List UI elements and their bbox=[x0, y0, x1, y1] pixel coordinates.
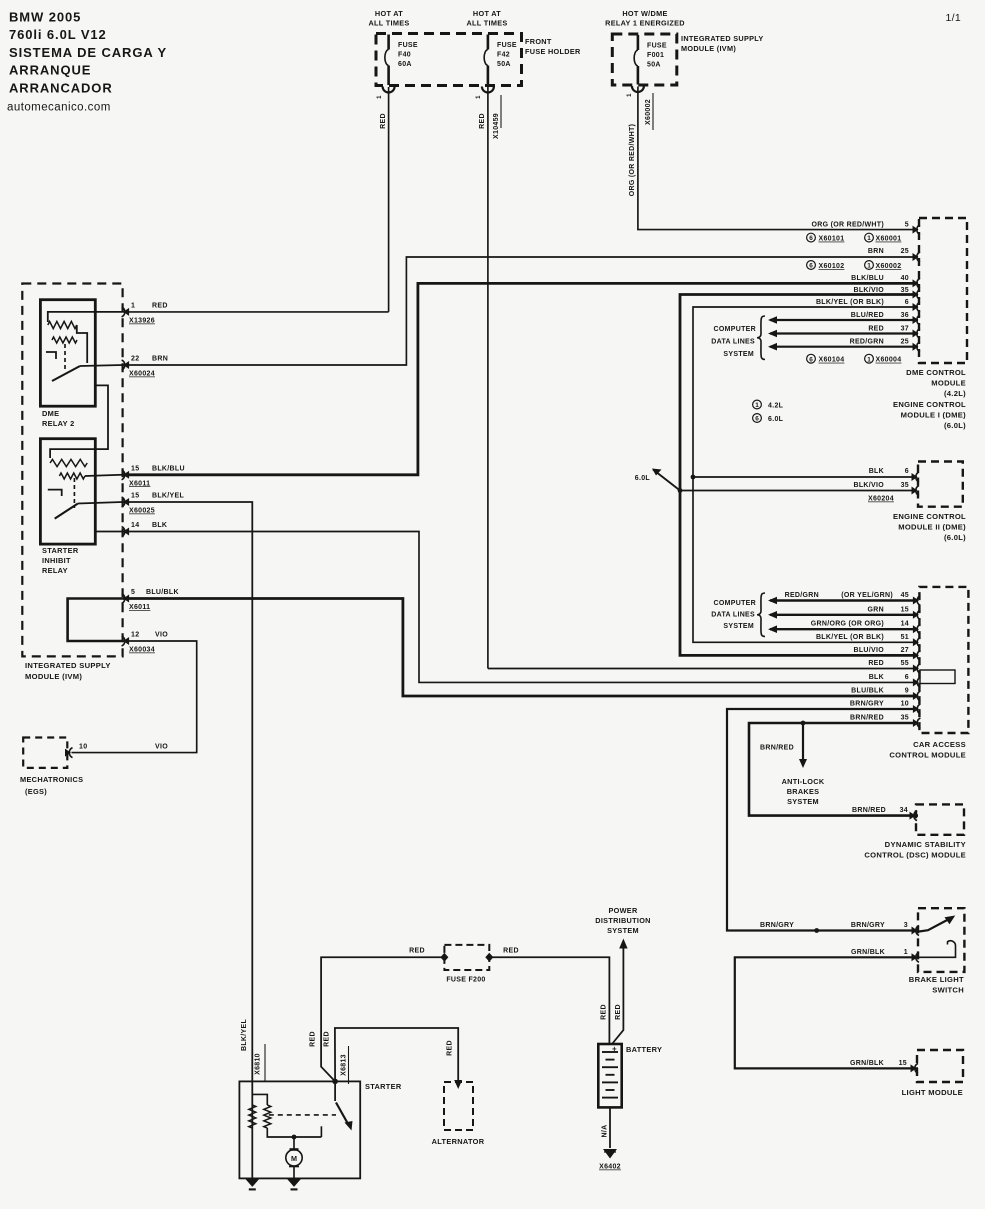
svg-text:CONTROL (DSC) MODULE: CONTROL (DSC) MODULE bbox=[864, 851, 966, 860]
fuse F200 box bbox=[444, 945, 489, 970]
svg-text:RED: RED bbox=[479, 113, 486, 129]
svg-text:BLU/VIO: BLU/VIO bbox=[854, 647, 885, 654]
svg-text:6.0L: 6.0L bbox=[768, 416, 784, 423]
DME pin 5 ORG bbox=[917, 225, 920, 235]
car access control module box bbox=[919, 587, 968, 733]
svg-text:F42: F42 bbox=[497, 52, 510, 59]
CAC pin 51 BLK/YEL bbox=[917, 637, 920, 647]
svg-text:ORG (OR RED/WHT): ORG (OR RED/WHT) bbox=[629, 124, 636, 196]
svg-text:BLK/VIO: BLK/VIO bbox=[854, 287, 885, 294]
svg-text:9: 9 bbox=[905, 688, 909, 695]
svg-text:BRN/GRY: BRN/GRY bbox=[851, 922, 885, 929]
svg-text:COMPUTER: COMPUTER bbox=[714, 600, 756, 607]
IVM internal link pin5-pin12 bbox=[68, 599, 123, 642]
DME relay 2 armature link bbox=[64, 344, 66, 372]
svg-text:1/1: 1/1 bbox=[946, 12, 962, 24]
wire pin 14 stub bbox=[95, 531, 122, 533]
svg-text:60A: 60A bbox=[398, 61, 412, 68]
IVM pin 15 BLK/BLU bbox=[122, 470, 125, 480]
svg-text:ENGINE CONTROL: ENGINE CONTROL bbox=[893, 400, 966, 409]
svg-text:(6.0L): (6.0L) bbox=[944, 533, 966, 542]
svg-text:X60204: X60204 bbox=[868, 496, 894, 503]
svg-text:15: 15 bbox=[901, 606, 909, 613]
CAC pin 14 GRN/ORG data line bbox=[917, 624, 920, 634]
svg-text:5: 5 bbox=[131, 589, 135, 596]
svg-text:760li 6.0L V12: 760li 6.0L V12 bbox=[9, 27, 107, 42]
legend 6.0L bbox=[753, 414, 762, 423]
svg-text:FUSE: FUSE bbox=[647, 43, 667, 50]
svg-text:BRAKE LIGHT: BRAKE LIGHT bbox=[909, 975, 964, 984]
fuse F42 bbox=[487, 35, 490, 50]
wire RED pin1 to fuse F40 bbox=[123, 311, 389, 313]
svg-text:MODULE (IVM): MODULE (IVM) bbox=[25, 672, 82, 681]
svg-text:BATTERY: BATTERY bbox=[626, 1045, 662, 1054]
svg-text:LIGHT MODULE: LIGHT MODULE bbox=[902, 1088, 963, 1097]
svg-text:DME CONTROL: DME CONTROL bbox=[906, 368, 966, 377]
IVM fuse box bbox=[612, 34, 677, 85]
svg-text:BLU/BLK: BLU/BLK bbox=[851, 688, 884, 695]
svg-text:SYSTEM: SYSTEM bbox=[607, 926, 639, 935]
svg-text:1: 1 bbox=[755, 402, 759, 409]
svg-text:GRN/ORG (OR ORG): GRN/ORG (OR ORG) bbox=[811, 621, 884, 628]
svg-text:14: 14 bbox=[901, 621, 909, 628]
CAC pin 35 BRN/RED bbox=[917, 718, 920, 728]
CAC pin 55 RED bbox=[917, 664, 920, 674]
svg-text:ALL TIMES: ALL TIMES bbox=[368, 19, 409, 28]
svg-text:X13926: X13926 bbox=[129, 318, 155, 325]
starter inhibit fixed contact bbox=[48, 490, 62, 496]
svg-text:CAR ACCESS: CAR ACCESS bbox=[913, 740, 966, 749]
svg-text:M: M bbox=[291, 1154, 297, 1163]
ground starter motor bbox=[287, 1179, 301, 1187]
wire battery negative to ground bbox=[609, 1107, 611, 1148]
svg-text:N/A: N/A bbox=[602, 1125, 609, 1138]
svg-text:6: 6 bbox=[755, 416, 759, 423]
starter motor feed contact bbox=[320, 1126, 322, 1137]
svg-text:GRN/BLK: GRN/BLK bbox=[851, 949, 885, 956]
svg-text:BRN/GRY: BRN/GRY bbox=[760, 922, 794, 929]
DME pin 37 RED data line bbox=[917, 329, 920, 339]
svg-text:FUSE F200: FUSE F200 bbox=[446, 977, 485, 984]
wire BLK pin14 to car access bbox=[123, 532, 918, 683]
svg-text:X60002: X60002 bbox=[645, 99, 652, 125]
svg-text:RED: RED bbox=[310, 1031, 317, 1047]
svg-text:MECHATRONICS: MECHATRONICS bbox=[20, 775, 83, 784]
engine control module II box bbox=[918, 462, 963, 507]
IVM pin 15 BLK/YEL bbox=[122, 497, 125, 507]
svg-text:ALL TIMES: ALL TIMES bbox=[466, 19, 507, 28]
svg-text:ARRANCADOR: ARRANCADOR bbox=[9, 80, 113, 95]
starter inhibit switch bbox=[55, 504, 78, 519]
integrated supply module IVM box bbox=[22, 284, 122, 657]
svg-text:X10459: X10459 bbox=[493, 113, 500, 139]
wire ORG from fuse F001 bbox=[638, 87, 918, 230]
svg-text:RED/GRN: RED/GRN bbox=[850, 339, 884, 346]
svg-text:GRN: GRN bbox=[868, 606, 884, 613]
light module box bbox=[917, 1050, 963, 1082]
svg-text:SWITCH: SWITCH bbox=[932, 986, 964, 995]
wire BLK/VIO DME pin35 to car access pin27 bbox=[680, 295, 918, 656]
IVM pin 5 bbox=[122, 594, 125, 604]
CAC pin 27 BLU/VIO bbox=[917, 650, 920, 660]
svg-text:15: 15 bbox=[131, 465, 139, 472]
DME relay 2 switch bbox=[52, 366, 80, 381]
front fuse holder box bbox=[376, 34, 522, 86]
svg-text:BLU/BLK: BLU/BLK bbox=[146, 589, 179, 596]
svg-text:INTEGRATED SUPPLY: INTEGRATED SUPPLY bbox=[25, 661, 111, 670]
svg-text:1: 1 bbox=[904, 949, 908, 956]
svg-text:X60001: X60001 bbox=[876, 236, 902, 243]
svg-text:1: 1 bbox=[131, 303, 135, 310]
starter inhibit armature link bbox=[73, 478, 75, 508]
svg-text:BRN: BRN bbox=[868, 248, 884, 255]
wire RED fuse F200 to battery bbox=[489, 957, 609, 1044]
svg-text:12: 12 bbox=[131, 632, 139, 639]
svg-text:SYSTEM: SYSTEM bbox=[787, 797, 819, 806]
CAC pin 45 RED/GRN data line bbox=[917, 596, 920, 606]
svg-text:INTEGRATED SUPPLY: INTEGRATED SUPPLY bbox=[681, 34, 764, 43]
svg-text:27: 27 bbox=[901, 647, 909, 654]
svg-text:50A: 50A bbox=[497, 61, 511, 68]
svg-text:6.0L: 6.0L bbox=[635, 475, 651, 482]
DME pin 40 BLK/BLU bbox=[917, 278, 920, 288]
svg-text:RED: RED bbox=[503, 947, 519, 954]
alternator box bbox=[444, 1082, 473, 1130]
svg-text:RED: RED bbox=[324, 1031, 331, 1047]
svg-text:37: 37 bbox=[901, 326, 909, 333]
DME relay 2 fixed contact bbox=[46, 352, 56, 359]
svg-text:RED: RED bbox=[601, 1004, 608, 1020]
svg-text:POWER: POWER bbox=[608, 906, 637, 915]
DME pin 6 BLK/YEL bbox=[917, 302, 920, 312]
svg-text:FUSE: FUSE bbox=[497, 42, 517, 49]
svg-text:10: 10 bbox=[901, 701, 909, 708]
svg-text:ANTI-LOCK: ANTI-LOCK bbox=[782, 777, 825, 786]
svg-text:4.2L: 4.2L bbox=[768, 403, 784, 410]
wire BRN pin22 to DME module bbox=[123, 257, 918, 365]
svg-text:5: 5 bbox=[905, 222, 909, 229]
DME control module box bbox=[919, 218, 967, 363]
svg-text:(6.0L): (6.0L) bbox=[944, 421, 966, 430]
battery bbox=[598, 1044, 621, 1107]
svg-text:(OR YEL/GRN): (OR YEL/GRN) bbox=[841, 592, 893, 599]
svg-text:STARTER: STARTER bbox=[42, 546, 79, 555]
IVM pin 1 bbox=[122, 307, 125, 317]
CAC pin 9 BLU/BLK bbox=[917, 691, 920, 701]
svg-text:ALTERNATOR: ALTERNATOR bbox=[432, 1137, 485, 1146]
svg-text:automecanico.com: automecanico.com bbox=[7, 102, 111, 114]
DME relay 2 coil bbox=[48, 312, 123, 322]
svg-text:BLK/YEL (OR BLK): BLK/YEL (OR BLK) bbox=[816, 299, 884, 306]
wire RED from fuse F40 bbox=[388, 87, 390, 312]
svg-text:RELAY: RELAY bbox=[42, 566, 68, 575]
IVM pin 22 bbox=[122, 360, 125, 370]
svg-text:X60002: X60002 bbox=[876, 263, 902, 270]
svg-text:45: 45 bbox=[901, 592, 909, 599]
svg-text:BLK/YEL: BLK/YEL bbox=[241, 1019, 248, 1051]
svg-text:40: 40 bbox=[901, 275, 909, 282]
wire BLK/BLU pin15 to DME module bbox=[123, 283, 918, 474]
svg-text:10: 10 bbox=[79, 744, 87, 751]
wire VIO pin12 to mechatronics bbox=[72, 641, 197, 753]
wire BRN/RED to anti-lock brakes bbox=[802, 723, 804, 759]
connector X60101 X60001 bbox=[807, 233, 816, 242]
svg-text:X60004: X60004 bbox=[876, 357, 902, 364]
svg-text:RED/GRN: RED/GRN bbox=[785, 592, 819, 599]
svg-text:(EGS): (EGS) bbox=[25, 787, 47, 796]
svg-text:34: 34 bbox=[900, 807, 908, 814]
svg-text:FUSE HOLDER: FUSE HOLDER bbox=[525, 47, 581, 56]
svg-text:X6810: X6810 bbox=[255, 1053, 262, 1075]
svg-text:6: 6 bbox=[809, 263, 813, 270]
CAC pin 15 GRN data line bbox=[917, 610, 920, 620]
svg-text:SYSTEM: SYSTEM bbox=[723, 623, 754, 630]
wire BLK/YEL DME pin6 to car access pin51 bbox=[693, 307, 918, 642]
fuse F40 bbox=[387, 35, 390, 50]
svg-text:25: 25 bbox=[901, 339, 909, 346]
connector X60102 X60002 bbox=[807, 261, 816, 270]
svg-text:RED: RED bbox=[447, 1040, 454, 1056]
starter inhibit coil bbox=[50, 459, 87, 466]
dynamic stability control module box bbox=[916, 804, 964, 834]
svg-text:BRN: BRN bbox=[152, 356, 168, 363]
svg-text:RELAY 1 ENERGIZED: RELAY 1 ENERGIZED bbox=[605, 19, 685, 28]
starter motor bbox=[292, 1135, 297, 1140]
wire RED starter to fuse F200 bbox=[321, 957, 444, 1081]
svg-text:BLK/YEL (OR BLK): BLK/YEL (OR BLK) bbox=[816, 634, 884, 641]
svg-text:MODULE: MODULE bbox=[931, 379, 966, 388]
svg-text:14: 14 bbox=[131, 522, 139, 529]
relay STARTER INHIBIT RELAY box bbox=[40, 439, 95, 544]
DME pin 36 BLU/RED data line bbox=[917, 315, 920, 325]
computer data lines system brace (CAC) bbox=[757, 593, 765, 637]
relay DME RELAY 2 box bbox=[40, 300, 95, 407]
starter switch bbox=[332, 1079, 338, 1085]
svg-text:INHIBIT: INHIBIT bbox=[42, 556, 71, 565]
svg-text:CONTROL MODULE: CONTROL MODULE bbox=[889, 751, 966, 760]
svg-text:6: 6 bbox=[905, 674, 909, 681]
svg-text:X6813: X6813 bbox=[341, 1054, 348, 1076]
svg-text:X60024: X60024 bbox=[129, 371, 155, 378]
svg-text:25: 25 bbox=[901, 248, 909, 255]
IVM pin 14 bbox=[122, 527, 125, 537]
svg-text:STARTER: STARTER bbox=[365, 1082, 402, 1091]
brake light switch lever bbox=[919, 919, 950, 932]
svg-text:DATA LINES: DATA LINES bbox=[711, 612, 755, 619]
DME pin 25 BRN bbox=[917, 252, 920, 262]
wire RED from fuse F42 bbox=[487, 87, 489, 669]
svg-text:BLK: BLK bbox=[869, 674, 884, 681]
svg-text:DME: DME bbox=[42, 409, 59, 418]
svg-text:55: 55 bbox=[901, 660, 909, 667]
svg-text:6: 6 bbox=[905, 299, 909, 306]
svg-text:1: 1 bbox=[627, 93, 633, 97]
svg-text:HOT AT: HOT AT bbox=[375, 9, 403, 18]
svg-text:X60025: X60025 bbox=[129, 508, 155, 515]
LM pin 15 GRN/BLK bbox=[915, 1063, 918, 1073]
svg-text:X60102: X60102 bbox=[819, 263, 845, 270]
svg-text:VIO: VIO bbox=[155, 744, 168, 751]
CAC pin 10 BRN/GRY bbox=[917, 704, 920, 714]
svg-text:X60101: X60101 bbox=[819, 236, 845, 243]
svg-text:BMW 2005: BMW 2005 bbox=[9, 10, 81, 25]
svg-text:MODULE II (DME): MODULE II (DME) bbox=[898, 523, 966, 532]
svg-text:BRN/RED: BRN/RED bbox=[850, 715, 884, 722]
BLS pin 3 BRN/GRY bbox=[916, 926, 919, 936]
IVM pin 12 bbox=[122, 636, 125, 646]
DSC pin 34 BRN/RED bbox=[914, 811, 917, 821]
CAC pin 6 BLK with internal bar bbox=[917, 677, 920, 687]
svg-text:BRN/RED: BRN/RED bbox=[852, 807, 886, 814]
svg-text:51: 51 bbox=[901, 634, 909, 641]
ECM II pin 35 BLK/VIO bbox=[916, 486, 919, 496]
svg-text:ENGINE CONTROL: ENGINE CONTROL bbox=[893, 512, 966, 521]
svg-text:SYSTEM: SYSTEM bbox=[723, 351, 754, 358]
svg-text:15: 15 bbox=[899, 1060, 907, 1067]
svg-text:GRN/BLK: GRN/BLK bbox=[850, 1060, 884, 1067]
svg-text:BLK/BLU: BLK/BLU bbox=[851, 275, 884, 282]
svg-text:DISTRIBUTION: DISTRIBUTION bbox=[595, 916, 651, 925]
svg-text:BRN/RED: BRN/RED bbox=[760, 745, 794, 752]
wire RED starter to alternator bbox=[335, 1028, 458, 1081]
brake light switch contact hook bbox=[919, 941, 956, 958]
starter switch link bbox=[269, 1114, 336, 1116]
ECM II pin 6 BLK bbox=[916, 472, 919, 482]
svg-text:BRAKES: BRAKES bbox=[787, 787, 820, 796]
svg-text:+: + bbox=[612, 1045, 617, 1054]
svg-text:35: 35 bbox=[901, 482, 909, 489]
svg-text:RED: RED bbox=[152, 303, 168, 310]
svg-text:BLK/YEL: BLK/YEL bbox=[152, 493, 184, 500]
svg-text:HOT W/DME: HOT W/DME bbox=[622, 9, 667, 18]
mechatronics EGS box bbox=[23, 738, 67, 768]
svg-text:15: 15 bbox=[131, 493, 139, 500]
connector X60104 X60004 bbox=[807, 354, 816, 363]
svg-text:RED: RED bbox=[409, 947, 425, 954]
svg-text:RED: RED bbox=[868, 660, 884, 667]
svg-text:X6011: X6011 bbox=[129, 604, 150, 611]
svg-text:BLK/BLU: BLK/BLU bbox=[152, 465, 185, 472]
svg-text:3: 3 bbox=[904, 922, 908, 929]
svg-text:6: 6 bbox=[905, 468, 909, 475]
svg-text:ORG (OR RED/WHT): ORG (OR RED/WHT) bbox=[812, 222, 884, 229]
svg-text:MODULE I (DME): MODULE I (DME) bbox=[901, 410, 967, 419]
svg-text:RED: RED bbox=[868, 326, 884, 333]
svg-text:35: 35 bbox=[901, 287, 909, 294]
svg-text:FRONT: FRONT bbox=[525, 37, 552, 46]
fuse F001 bbox=[637, 35, 640, 50]
wire BLU/BLK pin5 to car access bbox=[123, 599, 918, 697]
svg-text:F40: F40 bbox=[398, 52, 411, 59]
svg-text:DATA LINES: DATA LINES bbox=[711, 339, 755, 346]
svg-text:X60104: X60104 bbox=[819, 357, 845, 364]
brake light switch box bbox=[918, 908, 964, 972]
svg-text:1: 1 bbox=[377, 95, 383, 99]
svg-text:RED: RED bbox=[615, 1004, 622, 1020]
svg-text:MODULE (IVM): MODULE (IVM) bbox=[681, 44, 736, 53]
junction BRN/RED bbox=[801, 721, 806, 726]
svg-text:6: 6 bbox=[809, 356, 813, 363]
svg-text:36: 36 bbox=[901, 312, 909, 319]
svg-text:50A: 50A bbox=[647, 62, 661, 69]
svg-text:ARRANQUE: ARRANQUE bbox=[9, 63, 91, 78]
svg-text:1: 1 bbox=[867, 235, 871, 242]
ground starter solenoid bbox=[245, 1179, 259, 1187]
svg-text:VIO: VIO bbox=[155, 632, 168, 639]
svg-text:X6402: X6402 bbox=[599, 1164, 621, 1171]
BLS pin 1 GRN/BLK bbox=[916, 952, 919, 962]
ground X6402 bbox=[603, 1149, 617, 1159]
svg-text:HOT AT: HOT AT bbox=[473, 9, 501, 18]
svg-text:DYNAMIC STABILITY: DYNAMIC STABILITY bbox=[885, 840, 966, 849]
svg-text:FUSE: FUSE bbox=[398, 42, 418, 49]
svg-text:F001: F001 bbox=[647, 52, 664, 59]
svg-text:RED: RED bbox=[380, 113, 387, 129]
svg-text:22: 22 bbox=[131, 356, 139, 363]
svg-text:1: 1 bbox=[867, 263, 871, 270]
svg-text:X6011: X6011 bbox=[129, 480, 150, 487]
svg-text:(4.2L): (4.2L) bbox=[944, 389, 966, 398]
svg-text:BLK: BLK bbox=[869, 468, 884, 475]
mechatronics pin 10 bbox=[69, 748, 72, 758]
wire DME relay 2 to starter inhibit coil bbox=[50, 385, 108, 458]
svg-text:X60034: X60034 bbox=[129, 647, 155, 654]
svg-text:35: 35 bbox=[901, 715, 909, 722]
svg-text:1: 1 bbox=[476, 95, 482, 99]
DME pin 25 RED/GRN data line bbox=[917, 342, 920, 352]
svg-text:BRN/GRY: BRN/GRY bbox=[850, 701, 884, 708]
svg-text:SISTEMA DE CARGA Y: SISTEMA DE CARGA Y bbox=[9, 45, 167, 60]
svg-text:1: 1 bbox=[867, 356, 871, 363]
svg-text:6: 6 bbox=[809, 235, 813, 242]
svg-text:RELAY 2: RELAY 2 bbox=[42, 419, 75, 428]
svg-text:BLK: BLK bbox=[152, 522, 167, 529]
starter solenoid windings bbox=[251, 1081, 253, 1178]
svg-text:BLK/VIO: BLK/VIO bbox=[854, 482, 885, 489]
svg-text:COMPUTER: COMPUTER bbox=[714, 326, 756, 333]
legend 4.2L bbox=[753, 400, 762, 409]
DME pin 35 BLK/VIO bbox=[917, 290, 920, 300]
svg-text:BLU/RED: BLU/RED bbox=[851, 312, 884, 319]
wire BLK/YEL pin15 to starter bbox=[123, 502, 253, 1081]
wire RED battery to power distribution bbox=[619, 939, 627, 949]
starter box bbox=[239, 1081, 360, 1178]
computer data lines system brace (DME) bbox=[757, 316, 765, 360]
